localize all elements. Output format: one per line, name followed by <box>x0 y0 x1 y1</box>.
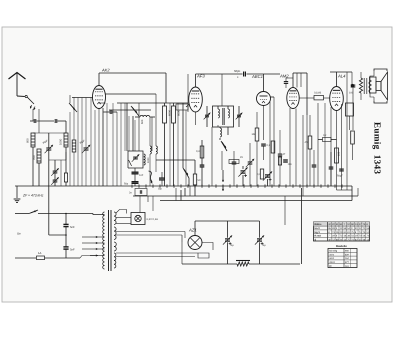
wire AM2 top box <box>293 72 307 74</box>
switch S1b <box>69 103 77 112</box>
oscillator loop <box>128 151 143 168</box>
wire choke leads <box>349 116 351 130</box>
svg-text:Ik mA: Ik mA <box>315 235 322 238</box>
svg-text:i MHz: i MHz <box>329 261 336 264</box>
speaker magnet <box>370 77 377 93</box>
capacitor C29 box <box>135 189 147 196</box>
svg-text:0,1M3: 0,1M3 <box>314 92 322 95</box>
resistor R3 <box>172 106 176 123</box>
svg-text:50pF: 50pF <box>234 69 241 73</box>
wire HV pair <box>116 252 198 254</box>
wire h235 <box>49 234 66 236</box>
wire v303 <box>302 115 304 196</box>
wire v107 <box>106 103 108 186</box>
svg-text:Eumig 1343: Eumig 1343 <box>372 122 383 174</box>
resistor R2 <box>163 106 167 123</box>
svg-text:150: 150 <box>338 151 341 156</box>
mixer sub-box <box>109 109 151 111</box>
wire v358 <box>357 188 359 196</box>
svg-text:0,3: 0,3 <box>196 150 200 153</box>
wire AF3 anode <box>195 74 197 87</box>
wire AF3 left pin <box>186 104 190 107</box>
wire AL4 cathode <box>336 111 338 191</box>
svg-text:100: 100 <box>349 92 354 95</box>
capacitor C23 <box>329 166 334 168</box>
tube ABC1 <box>257 92 271 106</box>
capacitor C22 <box>312 164 317 166</box>
capacitor C2 <box>54 119 56 123</box>
svg-text:50μF: 50μF <box>337 175 343 178</box>
svg-text:5nF: 5nF <box>70 249 75 252</box>
svg-text:Bauteile: Bauteile <box>336 244 347 248</box>
wire AM2 cathode <box>289 108 291 186</box>
wire v125 <box>124 103 126 151</box>
wire v188 <box>187 74 189 112</box>
svg-text:1nF: 1nF <box>139 174 144 177</box>
svg-text:i kHz: i kHz <box>329 257 335 260</box>
svg-text:4μ: 4μ <box>263 244 266 247</box>
wire heater pair <box>116 231 185 233</box>
wire top rail 74b <box>247 73 281 75</box>
resistor R14 <box>335 148 339 163</box>
resistor R9 <box>278 157 281 165</box>
svg-text:Ue: Ue <box>17 232 21 236</box>
tuning coil L3 <box>64 133 68 147</box>
table voltages <box>314 222 370 241</box>
capacitor C19 <box>284 81 288 83</box>
IF T1 secondary <box>228 109 230 112</box>
svg-text:i kHz: i kHz <box>329 253 335 256</box>
capacitor C17 <box>283 159 288 161</box>
transformer sec winding 3 <box>114 242 116 247</box>
wire vertical v74 <box>73 97 75 140</box>
capacitor C11 <box>132 181 139 183</box>
wire top rail g1 <box>99 72 166 74</box>
wire hline 160 <box>65 152 67 160</box>
grid network box <box>176 104 188 110</box>
wire v307b <box>306 115 308 186</box>
wire v182 <box>181 242 183 264</box>
bus minus rail <box>118 185 352 187</box>
svg-text:6000: 6000 <box>169 110 172 116</box>
transformer sec winding 1 <box>114 212 116 216</box>
wire v113 <box>112 103 114 186</box>
wire v170 <box>169 103 171 186</box>
wire v133 <box>132 116 134 151</box>
tube AK2 <box>93 86 106 109</box>
wire AL4 top rail <box>330 71 352 73</box>
wire antenna lead <box>17 95 25 98</box>
wire v285 <box>284 196 286 225</box>
electrolytic C18 <box>265 174 270 176</box>
wire v178 <box>177 103 179 186</box>
wire AK2 screen <box>77 98 79 187</box>
IF T1 trimmer right <box>237 114 241 116</box>
wire heater drops <box>139 196 141 213</box>
resistor R16 fieldcoil <box>237 262 249 266</box>
svg-text:Schaltlg: Schaltlg <box>329 250 338 253</box>
wire AK2 cathode <box>98 109 100 187</box>
bus chassis <box>15 185 118 187</box>
antenna coil L2 <box>37 149 41 163</box>
svg-text:AL4: AL4 <box>337 74 346 79</box>
transformer primary tap 1 <box>82 236 98 238</box>
transformer primary winding <box>103 212 105 216</box>
resistor R1 <box>64 173 67 182</box>
antenna coil L1 <box>31 133 35 147</box>
wire ABC1 right pins <box>271 96 275 98</box>
wire v117 <box>116 112 118 186</box>
resistor R7 <box>255 128 259 141</box>
wire v318 <box>317 103 319 186</box>
diode load parts <box>278 153 282 155</box>
wire mains upper <box>15 213 29 215</box>
output transformer secondary <box>369 80 371 92</box>
svg-text:Ug V: Ug V <box>315 231 321 234</box>
table wavebands <box>328 249 357 268</box>
AZ1 filament loop <box>198 253 209 258</box>
wire h row 103 <box>117 102 188 104</box>
wire grid stopper <box>299 97 314 99</box>
potentiometer P1 <box>248 161 253 163</box>
ground <box>16 186 18 198</box>
wire osc down <box>134 168 136 172</box>
resistor R6 <box>229 160 239 164</box>
transformer primary tap 2 <box>82 242 98 244</box>
switch S5 <box>29 210 38 214</box>
wire v135t <box>134 120 136 151</box>
wire ground line b <box>249 263 300 265</box>
resistor R12 <box>308 136 312 149</box>
wire return rail <box>160 200 352 202</box>
wire grid leads <box>32 109 34 121</box>
dial lamp <box>131 213 145 225</box>
capacitor C14 <box>232 161 237 163</box>
wire R2 leads <box>164 103 166 106</box>
wire IF1 top leads <box>217 106 219 109</box>
wire top node row <box>33 132 66 134</box>
resistor R4 <box>193 174 196 185</box>
wire AZ1 output <box>202 243 213 251</box>
trimmer C6 <box>53 179 58 181</box>
wire AZ1 anode up <box>194 228 196 236</box>
wire IF1 bottom leads <box>217 125 219 127</box>
wire v212 <box>211 127 213 186</box>
svg-text:1A: 1A <box>38 251 42 255</box>
wire AK2 cathode b <box>94 110 96 186</box>
resistor R10 <box>260 169 263 179</box>
capacitor C10 <box>132 171 139 173</box>
page background <box>2 27 392 302</box>
bus second rail <box>133 195 358 197</box>
osc coil L5 <box>140 115 143 117</box>
capacitor C7 <box>109 110 111 114</box>
capacitor C11b <box>159 177 165 179</box>
wire AK2 left <box>72 97 93 99</box>
wire mains lower <box>15 257 36 259</box>
IF transformer T1 box <box>213 106 234 127</box>
svg-text:Röhre: Röhre <box>315 223 323 226</box>
wire heater hook <box>116 210 127 214</box>
speaker bracket bottom <box>374 101 387 103</box>
svg-text:50p: 50p <box>158 188 163 191</box>
wire inter-bus links <box>175 188 177 201</box>
transformer primary tap 4 <box>80 256 98 259</box>
IF T1 core <box>222 108 224 125</box>
tube AZ1 <box>188 236 202 250</box>
svg-text:1000: 1000 <box>59 138 63 145</box>
osc padder squiggle <box>149 171 153 182</box>
osc coil L6 <box>144 154 145 157</box>
coil L7 <box>220 128 222 131</box>
svg-text:6,3V 0,1A: 6,3V 0,1A <box>147 218 159 221</box>
wire h139 <box>318 139 323 141</box>
wire v127 <box>126 103 128 151</box>
capacitor C1 <box>33 119 35 123</box>
wire mains lower b <box>45 257 81 259</box>
svg-text:0,3: 0,3 <box>267 144 271 147</box>
IF T1 trimmer left <box>205 114 209 116</box>
band switch contacts <box>222 176 224 182</box>
capacitor C24 <box>339 168 344 170</box>
resistor R8 <box>271 141 275 153</box>
wire mid h160 <box>156 159 195 161</box>
transformer primary tap 3 <box>82 248 98 250</box>
speaker cone <box>381 72 388 100</box>
capacitor C21 <box>351 84 354 87</box>
wire ABC1 cathode <box>263 106 265 141</box>
tube AF3 <box>189 87 203 112</box>
svg-text:AK2: AK2 <box>101 68 110 73</box>
wire vertical v78 <box>81 98 83 187</box>
svg-text:600: 600 <box>141 119 144 124</box>
switch S4 <box>221 141 227 151</box>
wire v186 <box>185 110 187 186</box>
svg-text:4V: 4V <box>240 156 243 159</box>
capacitor C26 <box>63 246 68 248</box>
capacitor C20 <box>351 84 356 86</box>
wire v212b <box>212 249 213 251</box>
wire vertical v70 <box>69 95 71 103</box>
osc coil L4 <box>72 140 76 152</box>
osc switch <box>129 160 132 166</box>
wire primary top <box>93 214 105 215</box>
wire v152 <box>151 117 153 151</box>
wire rect top rail <box>200 221 203 238</box>
wire HV ground line <box>182 263 237 265</box>
wire v139 <box>138 103 140 151</box>
wire v183 <box>182 103 184 166</box>
svg-text:700: 700 <box>32 155 36 160</box>
svg-text:4μ: 4μ <box>231 244 234 247</box>
svg-text:50p: 50p <box>124 183 129 186</box>
wire top rail 74 <box>196 73 243 75</box>
wire lamp pair <box>116 217 131 219</box>
svg-text:6000: 6000 <box>178 110 181 116</box>
electrolytic C15 <box>241 170 246 172</box>
electrolytic C27 <box>225 238 230 240</box>
tube AM2 <box>287 88 299 109</box>
wire v32x <box>324 103 326 186</box>
osc trimmer C8 <box>133 156 138 158</box>
svg-text:ABC1: ABC1 <box>251 74 263 79</box>
wire v61 <box>60 160 62 186</box>
svg-text:1M: 1M <box>252 133 256 136</box>
switch S1a <box>27 97 34 104</box>
output transformer primary <box>359 78 362 93</box>
svg-text:1000: 1000 <box>147 157 150 163</box>
tuning capacitor C4 <box>84 147 89 149</box>
svg-text:600: 600 <box>26 138 30 143</box>
wire AF3 cathode <box>195 112 197 125</box>
transformer sec winding 4 <box>114 253 116 257</box>
tuning capacitor C3 <box>46 147 51 149</box>
wire OT top <box>347 71 361 73</box>
capacitor C13 <box>243 72 245 77</box>
IF T1 primary <box>218 109 220 112</box>
choke box <box>346 103 354 116</box>
capacitor C16 <box>261 143 266 145</box>
wire R3 leads <box>173 103 175 106</box>
wire cap column <box>65 214 67 225</box>
wire v129 <box>128 116 130 151</box>
transformer sec winding 2 <box>114 227 116 231</box>
speaker coil <box>376 82 381 91</box>
switch S3 <box>183 168 189 178</box>
capacitor C12 <box>200 164 205 166</box>
speaker bracket top <box>374 69 387 71</box>
resistor R5 <box>200 146 204 158</box>
wire v222 lower <box>221 151 223 170</box>
wire trimmer branch <box>54 160 56 171</box>
osc coil L7b <box>156 146 157 149</box>
electrolytic C28 <box>257 238 262 240</box>
wire B+ vertical <box>301 188 303 264</box>
svg-text:Ua V: Ua V <box>315 227 321 230</box>
switch S2 <box>131 106 139 116</box>
resistor R13 <box>323 138 332 142</box>
antenna <box>9 73 26 80</box>
capacitor C25 <box>63 223 68 225</box>
transformer core <box>108 210 110 271</box>
wire vertical v86 <box>85 98 87 149</box>
wire AL4 anode <box>336 72 338 87</box>
wire OT vert <box>346 72 348 190</box>
trimmer C5 <box>53 170 58 172</box>
wire screen line <box>106 93 157 95</box>
svg-text:5nF: 5nF <box>70 226 75 229</box>
fuse F1 <box>37 256 45 260</box>
svg-text:ZF = 473 kHz: ZF = 473 kHz <box>22 194 44 198</box>
resistor R11 <box>314 96 324 100</box>
wire h103 <box>102 108 104 186</box>
wire AM2 anode <box>292 73 294 88</box>
wire v121 <box>120 103 122 186</box>
wire ABC1 anode <box>263 74 265 92</box>
output transformer core <box>363 78 365 94</box>
osc coil L7a <box>150 146 151 149</box>
tube AL4 <box>330 87 344 111</box>
resistor R15 <box>351 131 355 144</box>
wire AK2 anode <box>98 73 100 86</box>
svg-text:0,3: 0,3 <box>257 173 261 176</box>
